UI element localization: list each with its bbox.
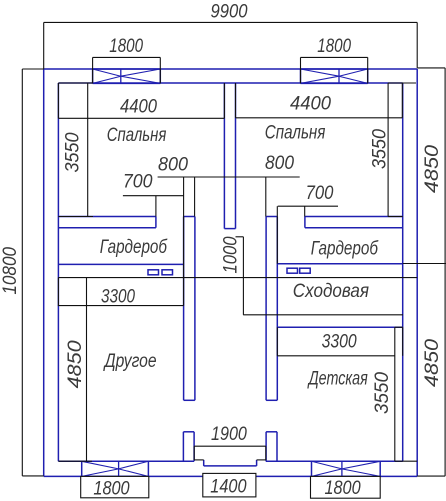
dimension 4850 left bbox=[58, 278, 92, 462]
vent shaft right A bbox=[287, 268, 298, 273]
svg-text:4850: 4850 bbox=[422, 145, 443, 193]
vent shaft left A bbox=[148, 270, 159, 275]
room label other bbox=[103, 351, 157, 372]
dimension 4850 right line bbox=[403, 68, 446, 476]
dimension 3550 nursery bbox=[395, 327, 417, 461]
label 1000 bbox=[221, 236, 242, 273]
dimension 4400 right bbox=[236, 83, 417, 118]
wall exterior left bbox=[43, 69, 45, 476]
svg-text:9900: 9900 bbox=[211, 2, 248, 23]
svg-text:4850: 4850 bbox=[65, 340, 86, 388]
stairwell bottom edge bbox=[243, 314, 403, 316]
wall center partition bbox=[224, 83, 235, 229]
wall interior bottom face right bbox=[266, 460, 403, 462]
wall stairwell-nursery face bbox=[277, 326, 402, 328]
svg-text:Спальня: Спальня bbox=[107, 125, 167, 146]
dimension 3300 nursery bbox=[277, 327, 402, 356]
svg-text:Детская: Детская bbox=[307, 369, 368, 390]
window W2 top-right 1800 bbox=[301, 69, 368, 83]
dimension 800 line bbox=[158, 177, 300, 217]
dimension 4400 left bbox=[58, 83, 224, 118]
svg-text:700: 700 bbox=[123, 172, 153, 193]
dimension 700 left bbox=[123, 177, 184, 306]
entrance jamb right bbox=[266, 432, 277, 461]
wall bedroom-right bottom bbox=[305, 217, 403, 228]
wall interior bottom face left bbox=[58, 460, 194, 462]
dimension box door 1400 bbox=[203, 473, 256, 497]
label 4850 left bbox=[65, 340, 86, 388]
dimension 3550 left bbox=[58, 83, 93, 217]
dimension 3550 right bbox=[388, 83, 403, 217]
label 1900 bbox=[211, 424, 247, 445]
svg-text:4850: 4850 bbox=[422, 339, 443, 387]
svg-text:10800: 10800 bbox=[0, 247, 21, 295]
wall exterior bottom bbox=[44, 475, 418, 477]
dimension 1000 line bbox=[236, 237, 244, 315]
entrance jamb left bbox=[183, 432, 194, 461]
svg-text:800: 800 bbox=[158, 155, 188, 176]
label 1800 top-right bbox=[317, 36, 351, 57]
label 1800 top-left bbox=[109, 36, 143, 57]
label 1800 bottom-left bbox=[93, 478, 130, 499]
wall corridor right bbox=[266, 217, 277, 401]
room label wardrobe left bbox=[100, 237, 168, 258]
label 1400 bbox=[210, 477, 247, 498]
svg-text:1800: 1800 bbox=[317, 36, 351, 57]
svg-text:1900: 1900 bbox=[211, 424, 247, 445]
label 3300 nursery bbox=[322, 332, 357, 353]
svg-text:Спальня: Спальня bbox=[265, 123, 326, 144]
svg-text:Гардероб: Гардероб bbox=[311, 239, 379, 260]
dimension 9900 line bbox=[44, 22, 418, 69]
label 1800 bottom-right bbox=[325, 478, 361, 499]
vent shaft right B bbox=[300, 268, 311, 273]
svg-text:Другое: Другое bbox=[103, 351, 157, 372]
svg-text:3300: 3300 bbox=[322, 332, 357, 353]
wall interior right face bbox=[402, 83, 404, 461]
room label stairwell bbox=[293, 281, 369, 302]
wall exterior right bbox=[416, 69, 418, 476]
svg-text:Гардероб: Гардероб bbox=[100, 237, 168, 258]
label 4400 right bbox=[290, 94, 331, 115]
window W4 bottom-right 1800 bbox=[312, 461, 381, 476]
wall bedroom-left bottom bbox=[58, 217, 155, 228]
label 3550 right bbox=[370, 129, 391, 169]
dimension box window W3 bbox=[81, 476, 149, 497]
wall interior left face bbox=[57, 83, 59, 461]
dimension box window W2 bbox=[301, 57, 368, 83]
wall wardrobe-right bottom face bbox=[277, 263, 402, 265]
stairwell top edge bbox=[58, 277, 417, 279]
svg-text:1000: 1000 bbox=[221, 236, 242, 273]
label 3550 left bbox=[63, 132, 84, 172]
label 3300 left bbox=[101, 286, 135, 307]
label 9900 bbox=[211, 2, 248, 23]
room label bedroom right bbox=[265, 123, 326, 144]
wall interior top face bbox=[58, 82, 402, 84]
entrance step black edges bbox=[194, 459, 266, 461]
dimension box window W1 bbox=[93, 57, 161, 83]
room label wardrobe right bbox=[311, 239, 379, 260]
entrance step bbox=[204, 460, 257, 466]
label 700 left bbox=[123, 172, 153, 193]
label 4850 right upper bbox=[422, 145, 443, 193]
room label nursery bbox=[307, 369, 368, 390]
dimension box window W4 bbox=[311, 476, 381, 498]
label 700 right bbox=[306, 183, 334, 204]
svg-text:3550: 3550 bbox=[372, 372, 393, 414]
svg-text:Сходовая: Сходовая bbox=[293, 281, 369, 302]
dimension 1900 line bbox=[194, 446, 266, 460]
room label bedroom left bbox=[107, 125, 167, 146]
svg-text:4400: 4400 bbox=[290, 94, 331, 115]
label 800 right bbox=[265, 153, 294, 174]
dimension 10800 line bbox=[22, 69, 43, 476]
svg-text:3550: 3550 bbox=[63, 132, 84, 172]
label 800 left bbox=[158, 155, 188, 176]
svg-text:1400: 1400 bbox=[210, 477, 247, 498]
label 10800 bbox=[0, 247, 21, 295]
window W1 top-left 1800 bbox=[93, 69, 161, 83]
dimension 3300 left bbox=[58, 278, 184, 306]
svg-text:3300: 3300 bbox=[101, 286, 135, 307]
svg-text:700: 700 bbox=[306, 183, 334, 204]
label 4850 right lower bbox=[422, 339, 443, 387]
wall wardrobe-left bottom face bbox=[58, 263, 183, 265]
svg-text:1800: 1800 bbox=[325, 478, 361, 499]
label 3550 nursery bbox=[372, 372, 393, 414]
label 4400 left bbox=[120, 96, 157, 117]
wall exterior top bbox=[44, 68, 418, 70]
vent shaft left B bbox=[162, 270, 173, 275]
window W3 bottom-left 1800 bbox=[82, 461, 149, 476]
svg-text:4400: 4400 bbox=[120, 96, 157, 117]
svg-text:3550: 3550 bbox=[370, 129, 391, 169]
svg-text:800: 800 bbox=[265, 153, 294, 174]
svg-text:1800: 1800 bbox=[109, 36, 143, 57]
wall corridor left bbox=[184, 217, 195, 401]
svg-text:1800: 1800 bbox=[93, 478, 130, 499]
dimension 700 right bbox=[277, 206, 338, 264]
